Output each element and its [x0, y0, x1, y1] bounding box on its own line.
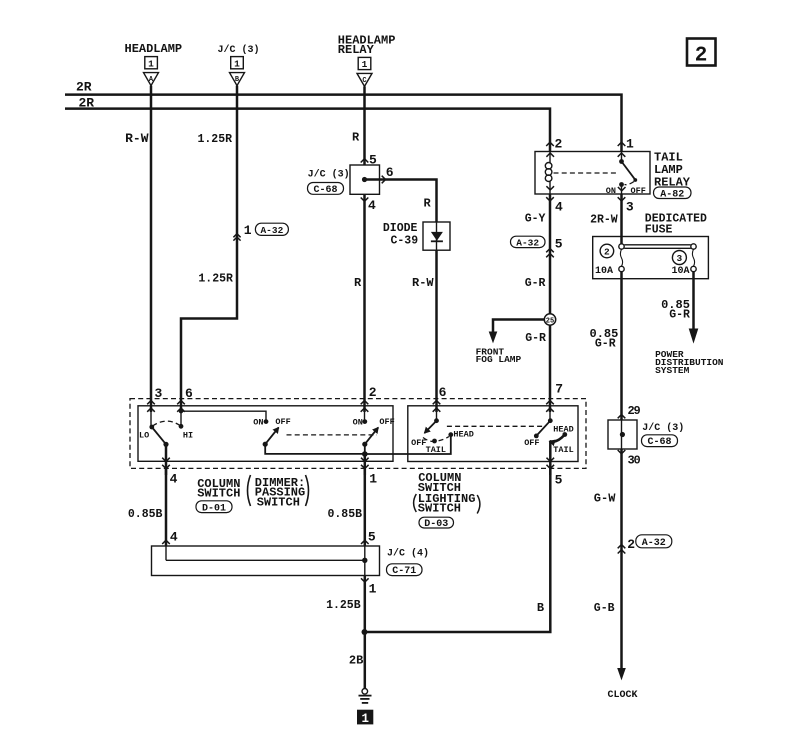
svg-text:D-01: D-01 — [202, 503, 226, 514]
svg-text:0.85B: 0.85B — [128, 508, 163, 521]
dashed arc OFF-TAIL-HEAD — [423, 437, 449, 442]
dimmer switch LO contact — [139, 408, 154, 440]
dimmer switch HI contact — [179, 408, 194, 440]
svg-text:2R: 2R — [79, 96, 95, 111]
svg-text:HI: HI — [183, 430, 193, 440]
junction box J/C (3) C-68 — [308, 165, 380, 196]
arrow to power distribution system — [689, 329, 699, 344]
svg-text:1: 1 — [234, 58, 240, 69]
svg-text:OFF: OFF — [631, 186, 646, 196]
svg-text:TAIL: TAIL — [553, 445, 573, 455]
dimmer switch arm — [152, 427, 166, 444]
wire 2R-W from relay pin 3 to fuse — [620, 194, 623, 244]
pin 30 arrow below J/C C-68 — [618, 450, 626, 454]
passing switch arm — [265, 428, 278, 445]
lighting left TAIL contact — [432, 439, 437, 444]
svg-text:1: 1 — [626, 137, 634, 152]
svg-text:6: 6 — [439, 385, 447, 400]
svg-text:TAIL: TAIL — [426, 445, 446, 455]
pin 1 arrow below J/C C-71 — [361, 578, 369, 582]
pin 4 arrow into J/C C-71 — [162, 540, 170, 544]
lighting right labels — [524, 425, 574, 455]
pin 1 arrow into tail lamp relay — [618, 142, 626, 146]
wire from HI node to passing ON contact — [181, 411, 266, 421]
page number box 2 — [687, 39, 716, 68]
svg-text:3: 3 — [626, 200, 634, 215]
passing pivot node — [263, 442, 268, 447]
lighting switch right arm — [536, 421, 550, 436]
main beam switch arm — [365, 428, 378, 445]
svg-text:2: 2 — [695, 45, 708, 68]
dashed mechanical link dimmer — [287, 434, 378, 436]
svg-text:R: R — [354, 276, 362, 290]
wire 0.85B from dimmer pin 1 to J/C C-71 — [364, 469, 367, 546]
svg-text:G-W: G-W — [594, 492, 616, 506]
main beam pivot node — [362, 442, 367, 447]
passing switch ON contact — [253, 417, 290, 428]
svg-text:5: 5 — [368, 530, 376, 545]
wire junction to lighting HEAD contact — [365, 435, 451, 454]
svg-text:6: 6 — [386, 165, 394, 180]
svg-text:ON: ON — [353, 418, 363, 428]
connector J/C (3) (triangle B) — [218, 44, 260, 86]
svg-text:D-03: D-03 — [424, 519, 448, 530]
dimmer/passing switch box — [138, 406, 393, 462]
svg-text:2: 2 — [604, 247, 610, 258]
wire B from lighting pin 5 to ground junction — [365, 469, 551, 632]
svg-text:A-32: A-32 — [260, 225, 283, 236]
svg-text:HEAD: HEAD — [453, 429, 473, 439]
svg-text:2R-W: 2R-W — [590, 214, 618, 227]
lighting left labels — [411, 429, 474, 455]
svg-text:OFF: OFF — [379, 417, 394, 427]
svg-text:G-Y: G-Y — [525, 213, 546, 226]
pin 4 arrow below C-68 — [361, 198, 369, 202]
svg-text:J/C (4): J/C (4) — [387, 547, 429, 559]
svg-text:1: 1 — [362, 59, 368, 70]
svg-text:4: 4 — [170, 530, 178, 545]
svg-text:SWITCH: SWITCH — [257, 496, 300, 510]
svg-text:6: 6 — [185, 386, 193, 401]
lighting left HEAD contact — [448, 432, 453, 437]
pin 6 arrows into dimmer switch — [177, 386, 193, 412]
wire 0.85 G-R from fuse 3 to power distribution — [692, 272, 695, 329]
lighting switch right contact — [548, 408, 553, 423]
pin 7 arrows into lighting switch — [546, 401, 554, 412]
connector HEADLAMP (triangle A) — [125, 42, 183, 86]
wire R from C-68 down to column switch pin 2 — [363, 194, 366, 412]
pin 6 arrow out right of C-68 — [382, 176, 386, 184]
label COLUMN SWITCH (LIGHTING SWITCH) D-03 — [414, 471, 480, 530]
svg-text:LO: LO — [139, 430, 149, 440]
svg-text:SYSTEM: SYSTEM — [655, 365, 690, 376]
svg-text:1: 1 — [369, 471, 377, 486]
thick arc TAIL position — [550, 435, 565, 442]
dimmer output wire pin 4 — [165, 444, 168, 475]
svg-text:0.85B: 0.85B — [328, 508, 363, 521]
dimmer output wire pin 1 — [364, 454, 367, 475]
wire from C-68 right to diode — [365, 180, 437, 223]
bus wire 2R (second) to tail lamp relay pin 2 — [65, 109, 550, 152]
dashed mechanical link lighting — [447, 425, 543, 427]
lighting switch box — [408, 406, 578, 462]
svg-text:FOG LAMP: FOG LAMP — [476, 354, 522, 365]
svg-text:3: 3 — [155, 386, 163, 401]
wire G-W from J/C C-68 down — [620, 449, 623, 669]
wire 1.25R from triangle B (jog to pin 6) — [181, 86, 237, 412]
wire R-W from triangle A to column switch pin 3 — [150, 86, 153, 412]
relay coil-contact dashed link — [554, 172, 618, 174]
wire G-R from node 25 to lighting switch pin 7 — [549, 325, 552, 412]
svg-text:5: 5 — [555, 472, 563, 487]
wire 1.25B from J/C C-71 down — [364, 576, 367, 689]
connector HEADLAMP RELAY (triangle C) — [338, 34, 396, 87]
svg-text:A-32: A-32 — [516, 237, 539, 248]
label TAIL LAMP RELAY — [654, 150, 692, 200]
svg-text:DIODE: DIODE — [383, 222, 418, 235]
svg-text:G-R: G-R — [669, 308, 690, 321]
pin 3 arrow below relay — [618, 197, 626, 201]
svg-text:10A: 10A — [672, 266, 690, 277]
svg-text:FUSE: FUSE — [645, 224, 673, 237]
pin 6 arrows into lighting switch — [433, 385, 447, 412]
svg-text:1: 1 — [148, 58, 154, 69]
svg-text:A-82: A-82 — [660, 189, 684, 200]
wire 0.85 G-R from fuse 2 down to J/C C-68 — [620, 272, 623, 420]
svg-text:G-R: G-R — [595, 337, 616, 350]
svg-text:4: 4 — [368, 198, 376, 213]
ground symbol — [359, 689, 372, 703]
svg-text:OFF: OFF — [411, 438, 426, 448]
wire 0.85B from dimmer pin 4 to J/C C-71 — [165, 469, 168, 546]
svg-text:R-W: R-W — [125, 131, 149, 146]
in-line connector A-32 pin 2 on G-W wire — [618, 535, 672, 554]
svg-text:J/C (3): J/C (3) — [218, 44, 260, 56]
svg-text:G-B: G-B — [594, 602, 615, 615]
svg-text:1: 1 — [369, 581, 377, 596]
dimmer pivot node — [163, 442, 168, 447]
svg-text:R: R — [352, 131, 360, 145]
in-line connector A-32 pin 1 on wire B — [233, 223, 288, 241]
lighting right OFF node — [534, 434, 539, 439]
lighting right HEAD contact — [562, 432, 567, 437]
pin 5 arrow into J/C C-68 — [361, 159, 369, 163]
arrow to front fog lamp — [489, 332, 498, 344]
lighting switch left arm — [425, 421, 437, 433]
svg-text:R-W: R-W — [412, 276, 434, 290]
svg-text:J/C (3): J/C (3) — [308, 169, 350, 181]
dashed arc LO-HI — [153, 421, 181, 426]
svg-text:B: B — [537, 601, 544, 615]
svg-text:C-39: C-39 — [391, 235, 419, 248]
svg-text:2: 2 — [369, 385, 377, 400]
svg-text:RELAY: RELAY — [338, 43, 375, 57]
pin 3 arrows into dimmer switch — [147, 386, 162, 412]
wire pivot to junction — [364, 444, 366, 454]
svg-text:1.25R: 1.25R — [198, 273, 233, 286]
node circled 25 on G-R wire — [544, 314, 555, 326]
passing output wire to junction — [265, 444, 365, 454]
svg-text:ON: ON — [606, 186, 616, 196]
svg-text:29: 29 — [628, 404, 641, 418]
in-line connector A-32 pin 5 on G wire — [511, 236, 563, 257]
svg-text:R: R — [424, 197, 432, 211]
diode C-39 — [383, 222, 450, 250]
svg-text:2R: 2R — [76, 80, 92, 95]
svg-text:C: C — [362, 77, 366, 85]
ground reference box 1 — [357, 710, 373, 726]
svg-text:30: 30 — [628, 453, 641, 467]
svg-text:1.25R: 1.25R — [198, 133, 233, 146]
svg-text:5: 5 — [555, 237, 563, 252]
junction node dimmer output — [362, 451, 368, 457]
svg-text:2B: 2B — [349, 653, 363, 667]
svg-text:G-R: G-R — [525, 277, 546, 290]
svg-text:CLOCK: CLOCK — [608, 690, 638, 701]
svg-text:A-32: A-32 — [642, 538, 666, 549]
wire G-Y from relay pin 4 down — [549, 194, 552, 314]
lighting switch left contact — [434, 408, 439, 423]
column switch dashed enclosure — [130, 399, 586, 469]
svg-text:ON: ON — [253, 418, 263, 428]
svg-text:10A: 10A — [595, 266, 613, 277]
svg-text:OFF: OFF — [524, 438, 539, 448]
pin 2 arrow into tail lamp relay — [546, 142, 554, 146]
svg-text:2: 2 — [627, 537, 635, 552]
svg-text:4: 4 — [555, 200, 563, 215]
dedicated fuse box — [593, 237, 709, 279]
svg-text:SWITCH: SWITCH — [197, 487, 240, 501]
svg-text:G-R: G-R — [525, 332, 546, 345]
pin 4 arrows out of dimmer switch — [162, 458, 177, 487]
relay contact (switch) — [606, 152, 646, 196]
main beam switch ON contact — [353, 408, 395, 428]
svg-text:OFF: OFF — [275, 417, 290, 427]
junction box J/C (3) C-68 right — [608, 420, 684, 449]
pin 1 arrows out of dimmer switch — [361, 458, 377, 487]
svg-text:C-71: C-71 — [392, 566, 416, 577]
relay TAIL LAMP RELAY box — [535, 152, 650, 195]
pin 29 arrow into J/C C-68 right — [618, 415, 626, 419]
svg-text:1: 1 — [244, 223, 252, 238]
svg-text:C-68: C-68 — [647, 437, 671, 448]
svg-text:1.25B: 1.25B — [326, 599, 361, 612]
arrow to clock — [617, 668, 626, 680]
svg-text:HEADLAMP: HEADLAMP — [125, 42, 183, 56]
svg-text:3: 3 — [677, 253, 683, 264]
bus wire 2R (top) to tail lamp relay pin 1 — [65, 95, 622, 152]
pin 4 arrow below relay — [546, 197, 554, 201]
svg-text:2: 2 — [555, 137, 563, 152]
relay coil — [545, 152, 554, 195]
svg-text:25: 25 — [546, 318, 554, 326]
wire branch to front fog lamp — [493, 320, 544, 333]
svg-text:1: 1 — [361, 712, 369, 726]
svg-text:7: 7 — [555, 382, 563, 397]
label COLUMN SWITCH (DIMMER: PASSING SWITCH) D-01 — [196, 475, 309, 514]
svg-text:SWITCH: SWITCH — [418, 502, 461, 516]
svg-text:4: 4 — [170, 471, 178, 486]
svg-text:J/C (3): J/C (3) — [642, 422, 684, 434]
wire R-W from diode to lighting switch pin 6 — [435, 250, 438, 412]
wire R from triangle C to J/C C-68 — [363, 86, 366, 165]
lighting right output wire pin 5 — [549, 441, 552, 475]
pin 5 arrow into J/C C-71 — [361, 540, 369, 544]
junction box J/C (4) C-71 — [152, 546, 430, 577]
junction node ground bus — [362, 629, 368, 635]
pin 5 arrows out of lighting switch — [547, 458, 563, 488]
svg-text:C-68: C-68 — [313, 185, 337, 196]
pin 2 arrows into dimmer switch — [361, 385, 377, 412]
